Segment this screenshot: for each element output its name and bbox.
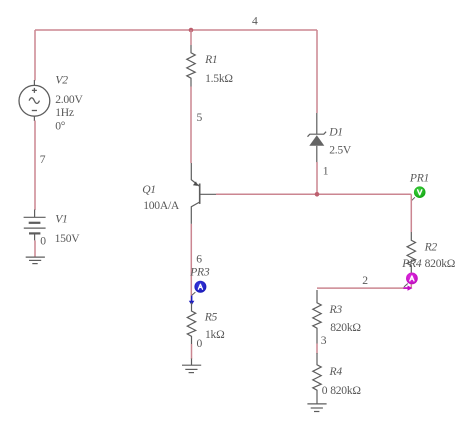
zener diode D1 (308, 113, 327, 162)
wire top horizontal net 4 (35, 29, 317, 31)
source V2 (19, 85, 50, 116)
svg-text:2: 2 (362, 274, 368, 287)
battery V1 (24, 210, 46, 241)
svg-text:R1: R1 (204, 53, 217, 66)
probe PR4 (406, 273, 418, 285)
Q1 emitter arrow (193, 181, 198, 186)
resistor R5 (187, 303, 195, 345)
svg-text:0: 0 (40, 235, 46, 248)
ground (left) (26, 257, 45, 264)
svg-text:1.5kΩ: 1.5kΩ (205, 72, 233, 85)
svg-text:PR1: PR1 (409, 171, 429, 184)
svg-text:100A/A: 100A/A (143, 199, 180, 212)
svg-text:1kΩ: 1kΩ (205, 328, 225, 341)
resistor R4 (313, 353, 321, 404)
svg-text:820kΩ: 820kΩ (425, 257, 456, 270)
resistor R2 (407, 232, 415, 273)
svg-text:D1: D1 (328, 126, 343, 139)
svg-text:2.00V: 2.00V (55, 93, 83, 106)
svg-text:R4: R4 (329, 365, 343, 378)
resistor R3 (313, 290, 321, 344)
svg-text:4: 4 (252, 14, 258, 27)
svg-text:PR3: PR3 (189, 265, 210, 278)
probe PR1 (414, 186, 426, 198)
svg-text:5: 5 (197, 111, 203, 124)
probe PR4 arrow (403, 286, 412, 291)
junction dot node4/R1 (189, 28, 194, 33)
svg-text:Q1: Q1 (142, 183, 156, 196)
ground (right) (307, 404, 326, 412)
svg-text:R3: R3 (329, 303, 343, 316)
wire R1 to Q1 emitter, node 5 (190, 87, 192, 164)
wire R5 to ground (191, 344, 193, 359)
svg-text:150V: 150V (55, 232, 81, 245)
svg-text:PR4: PR4 (401, 257, 422, 270)
probe PR4 leader (404, 284, 408, 287)
wire node 2 horizontal (317, 287, 411, 289)
probe PR3 leader (192, 292, 195, 295)
wire junction to R1 (190, 30, 192, 45)
junction dot base/D1 (315, 192, 320, 197)
svg-text:6: 6 (196, 252, 202, 265)
wire Q1 collector down (190, 224, 192, 303)
wire D1 to base wire (316, 162, 318, 194)
svg-text:820kΩ: 820kΩ (330, 321, 361, 334)
wire left vertical from top to V2 (34, 30, 36, 81)
wire R2 bottom to corner (410, 273, 412, 289)
wire PR1 corner down to R2 (410, 194, 412, 232)
probe PR3 (194, 281, 206, 293)
transistor Q1 (191, 163, 216, 224)
svg-text:1: 1 (323, 165, 329, 178)
svg-text:R2: R2 (424, 241, 438, 254)
svg-text:0: 0 (322, 384, 328, 397)
wire D1 branch from top (316, 30, 318, 113)
wire Q1 base to right (216, 193, 411, 195)
svg-text:0°: 0° (55, 119, 66, 132)
svg-text:0: 0 (197, 337, 203, 350)
wire V2 to V1 (33, 116, 35, 121)
wire R3 to R4 (316, 344, 318, 354)
ground (center) (182, 365, 201, 372)
svg-text:3: 3 (321, 334, 327, 347)
svg-text:V2: V2 (55, 74, 68, 87)
svg-text:R5: R5 (204, 311, 218, 324)
svg-text:1Hz: 1Hz (55, 106, 74, 119)
svg-text:820kΩ: 820kΩ (330, 384, 361, 397)
probe PR1 leader (412, 197, 415, 200)
resistor R1 (187, 45, 195, 87)
svg-text:2.5V: 2.5V (329, 143, 352, 156)
V2 top pin (33, 80, 35, 86)
probe PR3 arrow (189, 296, 195, 306)
svg-text:7: 7 (40, 153, 46, 166)
wire V1 to ground (34, 240, 36, 257)
svg-text:V1: V1 (55, 213, 67, 226)
